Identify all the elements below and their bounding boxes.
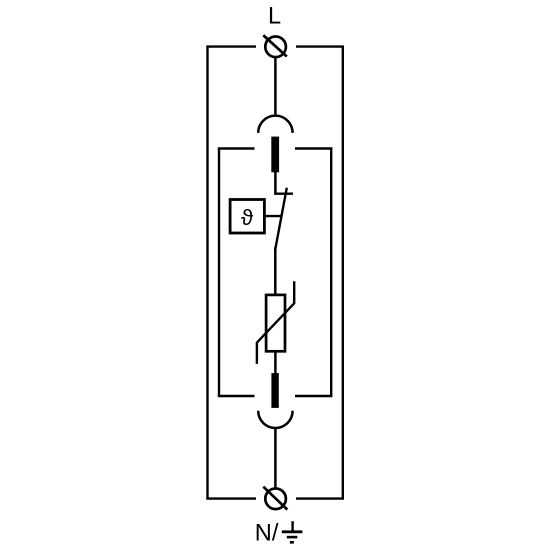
earth symbol bar 1 [282, 530, 303, 533]
wire pin to switch [274, 171, 277, 195]
varistor RV body [266, 295, 285, 351]
earth symbol bar 3 [290, 541, 294, 544]
thermal element box [230, 200, 264, 234]
thermal disconnect switch blade [275, 188, 287, 249]
inner module top edge (gap at pin) [218, 147, 333, 149]
outer enclosure right edge [342, 47, 344, 499]
inner module left edge [218, 149, 220, 397]
electrode bar bottom (plug pin) [271, 373, 278, 408]
svg-text:N/: N/ [255, 521, 279, 547]
outer enclosure left edge [206, 47, 208, 499]
terminal X2 bottom (circle) [265, 489, 286, 510]
inner module right edge [330, 149, 332, 397]
outer enclosure top edge (gap at terminal) [206, 45, 344, 47]
earth symbol bar 2 [287, 536, 298, 539]
electrode bar top (plug pin) [271, 137, 279, 173]
inner module bottom edge (gap at pin) [218, 395, 333, 397]
plug-in contact top (arc) [258, 116, 292, 133]
wire switch to varistor [274, 248, 277, 297]
plug-in contact bottom (arc) [258, 411, 292, 428]
earth symbol stem [291, 521, 293, 531]
terminal X2 bottom slash [263, 487, 287, 510]
terminal X1 top slash [263, 35, 287, 56]
wire contact to terminal N [274, 429, 277, 488]
svg-text:L: L [268, 3, 281, 29]
svg-text:ϑ: ϑ [241, 205, 254, 230]
thermal disconnect switch fixed contact [275, 192, 293, 194]
link thermal box to blade [264, 215, 281, 217]
wire varistor to bottom pin [274, 350, 277, 374]
wire terminal L to plug contact [274, 58, 277, 115]
varistor characteristic diagonal [257, 281, 294, 364]
outer enclosure bottom edge (gap at terminal) [206, 497, 344, 499]
terminal X1 top (circle) [265, 37, 286, 58]
